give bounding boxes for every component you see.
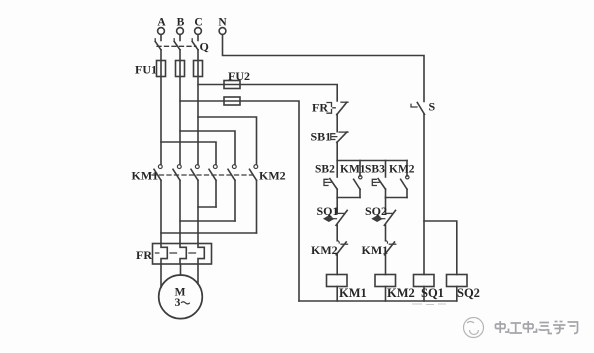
svg-text:FU2: FU2 <box>228 69 250 83</box>
svg-text:SQ2: SQ2 <box>457 286 480 300</box>
svg-text:KM1: KM1 <box>340 164 366 176</box>
svg-text:3: 3 <box>175 297 181 309</box>
svg-text:FR: FR <box>136 248 152 262</box>
svg-text:KM1: KM1 <box>132 169 159 183</box>
svg-text:SQ1: SQ1 <box>317 204 339 218</box>
svg-text:KM2: KM2 <box>389 164 415 176</box>
svg-text:KM1: KM1 <box>362 243 389 257</box>
svg-text:KM2: KM2 <box>311 243 338 257</box>
svg-text:SB2: SB2 <box>315 164 335 176</box>
svg-text:S: S <box>429 100 436 114</box>
svg-text:KM2: KM2 <box>259 169 286 183</box>
svg-text:FR: FR <box>312 101 328 115</box>
svg-text:SB1: SB1 <box>311 130 332 144</box>
svg-text:Q: Q <box>200 40 209 54</box>
svg-text:KM2: KM2 <box>387 286 415 300</box>
svg-text:SB3: SB3 <box>365 164 385 176</box>
svg-text:KM1: KM1 <box>339 286 367 300</box>
svg-text:N: N <box>218 17 227 29</box>
svg-text:A: A <box>157 17 166 29</box>
svg-text:SQ2: SQ2 <box>365 204 387 218</box>
svg-text:SQ1: SQ1 <box>421 286 444 300</box>
svg-text:FU1: FU1 <box>135 63 157 77</box>
svg-text:B: B <box>177 17 185 29</box>
svg-text:C: C <box>194 17 202 29</box>
